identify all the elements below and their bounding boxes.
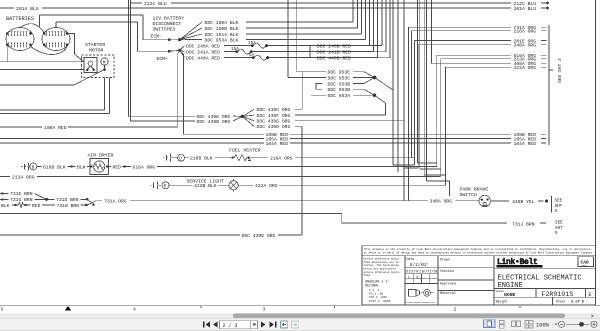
single page mode icon (selected) [484,320,496,328]
svg-text:201A BLU: 201A BLU [514,6,537,12]
svg-text:DDC 440B RED: DDC 440B RED [317,56,351,62]
wire 340A ORG riser [404,45,511,168]
svg-text:.XX ± .06: .XX ± .06 [367,293,383,296]
wire ECM+ fanout [180,46,185,58]
wire 731D BRN [48,198,86,200]
svg-text:DDC 953C: DDC 953C [328,75,351,81]
svg-text:2 / 3: 2 / 3 [223,323,238,329]
svg-text:DDC 241A RED: DDC 241A RED [186,50,220,56]
page number box [220,321,258,329]
battery BT2 outline [42,28,70,51]
svg-text:731J BRN: 731J BRN [512,221,535,227]
starter solenoid box [84,58,97,73]
wire ECM+ feed [138,22,170,51]
wire battery right to starter [67,34,84,63]
svg-text:3 of 5: 3 of 5 [571,300,584,305]
svg-text:5: 5 [1,306,4,312]
svg-text:M: M [103,61,106,66]
svg-text:MOTOR: MOTOR [89,48,104,54]
wire 731E BRN [1,192,3,194]
svg-text:5: 5 [555,231,558,236]
svg-text:ELECTRICAL SCHEMATIC: ELECTRICAL SCHEMATIC [498,274,582,282]
viewer toolbar [0,319,600,331]
svg-text:212C BLU: 212C BLU [144,1,167,7]
svg-text:RED: RED [113,164,122,170]
previous view icon [281,321,288,328]
svg-text:216B BLK: 216B BLK [190,156,213,162]
Link-Belt logo [497,258,543,268]
node 953 junction upper [373,76,377,80]
battery BT2 cells row 1 [46,31,65,36]
svg-text:DDC 439C ORG: DDC 439C ORG [257,107,291,113]
svg-text:SEE: SEE [555,199,563,204]
wire starter feed 1 [0,61,84,63]
svg-text:Scale: Scale [496,289,505,293]
svg-text:216A ORG: 216A ORG [270,156,293,162]
zone marker triangle [65,306,71,311]
svg-text:DDC 150A BLK: DDC 150A BLK [205,20,239,26]
svg-text:422A ORG: 422A ORG [255,183,278,189]
svg-text:ECM+: ECM+ [157,56,168,62]
svg-text:DDC 953B: DDC 953B [328,87,351,93]
wire 953 lower to riser [375,95,386,103]
TITLE BLOCK [362,246,596,305]
svg-text:Sheet: Sheet [556,300,566,304]
wire 439E/439B to junction [233,116,242,121]
svg-text:Drawn: Drawn [440,257,450,261]
ground service light [150,181,158,189]
svg-text:DDC 953A BLK: DDC 953A BLK [205,37,239,43]
lamp service light [229,181,238,190]
svg-text:fied.: fied. [364,273,372,277]
wire 201E ORG riser [393,0,511,165]
wire 953 upper to riser [375,78,394,91]
svg-text:.XXX ± .005: .XXX ± .005 [367,296,387,299]
svg-text:104A RED: 104A RED [514,141,537,147]
prev page button [213,322,218,328]
next view icon [292,321,299,328]
wire 731J BRN run [0,214,507,224]
svg-text:DDC 439D ORG: DDC 439D ORG [242,233,276,239]
wire 953C feed riser [287,0,289,78]
wire starter drop A [0,78,105,110]
svg-text:.XXXX ± .0005: .XXXX ± .0005 [367,300,391,303]
wire 340B YEL [490,200,509,202]
zoom out button [558,321,564,327]
switch park brake [479,195,490,206]
wire battery bus drop B feeds 439B [131,0,195,121]
wire ECM- feed [143,15,180,40]
wire battery interconnect top loop [20,24,44,34]
svg-text:FUEL HEATER: FUEL HEATER [229,148,261,154]
svg-text:3: 3 [263,306,266,312]
svg-text:SEE SHT 3: SEE SHT 3 [557,58,563,83]
third angle projection symbol [409,290,420,297]
svg-text:Approved: Approved [440,282,456,286]
svg-text:DDC 439D ORG: DDC 439D ORG [257,124,291,130]
wire 616A ORG riser [437,55,511,166]
wire 408A ORG riser [398,0,511,172]
node 212C BLU right terminal [546,2,549,5]
svg-text:DDC 151A BLK: DDC 151A BLK [205,32,239,38]
svg-text:DDC 150B BLK: DDC 150B BLK [205,26,239,32]
svg-text:DECIMAL: DECIMAL [365,285,379,289]
ground air dryer [21,163,29,171]
ground fuel heater [163,154,171,162]
svg-text:in whole or in part, of design: in whole or in part, of design and data … [364,251,594,255]
title block column dividers [405,256,494,305]
wire 104A RED bus [0,142,546,144]
wire battery interconnect bottom loop [31,45,68,55]
svg-text:DDC 240B RED: DDC 240B RED [317,43,351,49]
svg-text:DDC 439F ORG: DDC 439F ORG [257,113,291,119]
continuous facing icon [525,321,529,324]
svg-text:12V BATTERY: 12V BATTERY [153,16,185,22]
wire ECM- fanout [180,22,202,40]
next page button [261,322,266,328]
CAD box [578,257,594,267]
wire 108B RED bus [184,133,547,135]
starter motor dashed enclosure [82,55,115,78]
svg-text:SWITCH: SWITCH [460,192,477,198]
connector E service light [162,182,169,189]
air dryer box [90,159,109,175]
svg-text:100%: 100% [536,323,550,329]
battery BT1 outline [6,28,34,51]
svg-text:.X ± .1: .X ± .1 [367,289,380,292]
svg-text:STARTER: STARTER [85,42,105,48]
svg-text:Weight: Weight [496,300,508,304]
node starter motor terminal [103,68,106,71]
node 201A BLU right terminal [546,7,549,10]
battery BT1 terminals [6,32,32,46]
last page button [270,322,275,328]
zoom in button [591,321,597,327]
svg-text:DDC 953B: DDC 953B [328,81,351,87]
svg-text:L: L [408,276,410,280]
battery BT2 cells row 2 [46,42,65,47]
wire 422A ORG riser [446,67,512,185]
notice text [364,247,594,255]
wire battery bus drop A feeds 439E [129,0,195,117]
svg-text:213A ORG: 213A ORG [12,174,35,180]
node 439 junction [241,115,244,118]
svg-text:DISCONNECT: DISCONNECT [153,21,182,27]
wire 216A ORG riser [412,31,511,158]
svg-text:DDC 439B ORG: DDC 439B ORG [197,119,231,125]
wire 953E feed riser [296,0,298,72]
svg-text:3: 3 [555,209,558,214]
svg-text:DDC 240A RED: DDC 240A RED [186,44,220,50]
svg-text:108A RED: 108A RED [44,125,67,131]
viewer scrollbar [0,313,600,319]
svg-text:731D BRN: 731D BRN [56,197,79,203]
svg-text:CONSTRUCTION EQUIPMENT: CONSTRUCTION EQUIPMENT [498,265,526,268]
wire 105A RED bus [0,138,546,140]
svg-text:DDC 440A RED: DDC 440A RED [186,56,220,62]
node 953 junction lower [373,94,377,98]
wire 201A BLU top [0,7,546,9]
svg-text:RED: RED [32,203,41,209]
svg-text:731E BRN: 731E BRN [10,191,33,197]
svg-text:BATTERIES: BATTERIES [6,16,34,22]
wire ECM+ drop to 108A [178,50,180,127]
wire 731B BRN [42,204,85,206]
svg-text:616B BLK: 616B BLK [43,164,66,170]
wire ECM+ drop to 108B [180,50,184,134]
svg-text:616A ORG: 616A ORG [133,164,156,170]
wire nest riser 2 [420,0,441,169]
svg-text:2: 2 [454,306,457,312]
battery BT1 cells row 2 [8,42,27,47]
svg-text:422B BLK: 422B BLK [194,183,217,189]
svg-text:THIRD ANGLE PROJECTION: THIRD ANGLE PROJECTION [406,301,436,304]
wire 212C BLU top [131,2,546,4]
svg-text:ENGINE: ENGINE [498,282,523,290]
wire starter diagonal feed [0,70,105,86]
wire battery left drop [6,45,8,62]
svg-text:SWITCHES: SWITCHES [153,27,176,33]
wire battery to ECM+ riser [56,22,138,28]
svg-text:SHT: SHT [555,226,563,231]
svg-text:DDC 241B RED: DDC 241B RED [317,50,351,56]
svg-text:DDC 439G ORG: DDC 439G ORG [257,119,291,125]
svg-text:This drawing is the property o: This drawing is the property of Link-Bel… [364,247,592,251]
zoom slider [567,323,590,325]
svg-text:ECM-: ECM- [151,34,162,40]
svg-text:BLK: BLK [77,164,86,170]
svg-text:Material: Material [440,291,456,295]
wire 731G BRN [1,198,3,200]
wire battery to ECM- riser [40,15,144,27]
svg-text:AIR DRYER: AIR DRYER [88,153,114,159]
svg-text:731B BRN: 731B BRN [57,203,80,209]
svg-text:Date: Date [407,257,415,261]
switch 731 output [87,199,96,205]
wire starter feed 2 [0,69,84,71]
title block outline [362,246,596,305]
svg-text:SEE: SEE [555,221,563,226]
facing mode icon [512,321,516,326]
svg-text:DDC 953A: DDC 953A [328,93,351,99]
svg-text:PARK BRAKE: PARK BRAKE [460,187,489,193]
node 731 junction [45,198,48,201]
node ECM+ junctions [168,50,171,53]
svg-text:201A BLU: 201A BLU [16,6,39,12]
svg-text:340A ORG: 340A ORG [430,199,453,205]
tolerance notes [364,257,401,278]
wire nest riser 1 [417,0,436,163]
svg-text:422A ORG: 422A ORG [514,65,537,71]
svg-text:BLK: BLK [1,203,10,209]
connector D fuel heater [178,154,185,161]
starter motor M [101,58,108,65]
node ECM- junctions [168,38,171,41]
sheet bottom zone ruler [0,306,600,308]
title row divider [494,267,596,269]
svg-text:Checked: Checked [440,269,454,273]
svg-text:731A ORG: 731A ORG [104,198,127,204]
svg-text:731G BRN: 731G BRN [10,197,33,203]
battery BT2 terminals [43,32,68,46]
svg-text:213A ORG: 213A ORG [514,57,537,63]
svg-text:DDC 953E: DDC 953E [328,70,351,76]
wire 731A ORG riser [409,27,512,201]
svg-text:SHT: SHT [555,204,563,209]
starter solenoid symbol [88,61,93,66]
wire 439G drop to park brake [403,0,405,201]
svg-text:-9043: -9043 [581,264,588,267]
wire starter drop B [0,78,109,114]
first page button [203,321,204,327]
wire 213A ORG riser [441,59,511,177]
svg-text:104A RED: 104A RED [266,141,289,147]
node sheet-edge bracket [549,25,553,145]
sheet right border [595,0,597,246]
label SEE SHT 3 park brake [551,196,553,213]
air dryer heater coil [94,161,105,172]
svg-text:4: 4 [133,306,136,312]
resistor fuel heater element [232,157,234,159]
wire nest riser 4 [427,0,450,196]
svg-text:216A ORG: 216A ORG [514,29,537,35]
wire 439 fanout [243,109,255,126]
battery BT1 cells row 1 [8,31,27,36]
wire nest riser 3 [424,0,445,175]
connector B air dryer [30,163,37,170]
continuous mode icon [500,321,533,329]
svg-text:340A ORG: 340A ORG [514,43,537,49]
signature rows [438,267,494,290]
svg-text:340B YEL: 340B YEL [512,199,535,205]
